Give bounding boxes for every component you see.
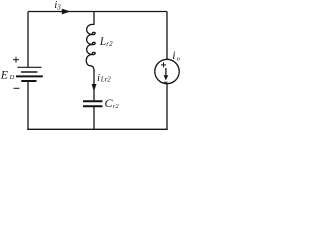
capacitor C_r2 plates — [83, 101, 103, 106]
battery plus — [13, 57, 19, 63]
source minus — [164, 81, 168, 83]
wire middle lower — [93, 107, 95, 129]
svg-text:2: 2 — [107, 76, 111, 84]
wire bottom — [27, 128, 167, 130]
svg-text:E: E — [0, 67, 9, 81]
battery minus — [14, 87, 20, 89]
wire middle upper — [93, 12, 95, 25]
current arrow i_Lr2 (middle) — [92, 84, 97, 92]
wire right lower — [166, 84, 168, 130]
source plus — [161, 62, 166, 67]
wire left upper — [27, 12, 29, 68]
battery E_D plates — [16, 67, 43, 81]
wire middle mid — [93, 70, 95, 100]
svg-text:3: 3 — [56, 3, 61, 11]
svg-text:2: 2 — [109, 40, 113, 48]
svg-text:i: i — [97, 72, 100, 84]
wire top — [28, 11, 167, 13]
svg-text:i: i — [172, 48, 175, 62]
wire left lower — [27, 81, 29, 130]
current source i_o — [155, 59, 179, 83]
source arrow — [165, 68, 167, 76]
svg-text:D: D — [9, 74, 15, 81]
current arrow i3 (top) — [62, 9, 71, 15]
inductor L_r2 — [86, 24, 95, 70]
svg-text:o: o — [177, 56, 180, 63]
wire right upper — [166, 12, 168, 60]
svg-text:L: L — [99, 36, 106, 48]
